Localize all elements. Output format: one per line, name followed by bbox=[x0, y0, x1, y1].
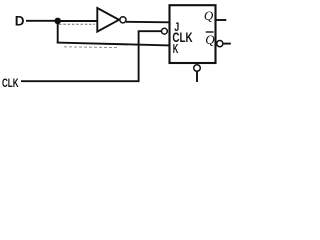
wire Q output bbox=[217, 19, 227, 21]
CLK input bubble bbox=[162, 28, 168, 34]
wire shadow artifact bbox=[59, 23, 95, 25]
Qbar output bubble bbox=[217, 41, 223, 47]
inverter U1 triangle bbox=[97, 8, 119, 32]
Qbar overbar bbox=[206, 31, 214, 33]
wire CLK bottom horizontal bbox=[21, 80, 140, 82]
wire inverter to J input bbox=[126, 21, 170, 24]
wire node vertical branch to K bbox=[57, 21, 59, 44]
clear input bubble (bottom) bbox=[194, 65, 201, 72]
svg-text:Q: Q bbox=[205, 32, 215, 47]
wire D to node bbox=[26, 20, 58, 22]
wire CLK vertical riser bbox=[138, 30, 140, 81]
inverter U1 output bubble bbox=[120, 17, 126, 23]
svg-text:Q: Q bbox=[204, 8, 214, 23]
svg-text:K: K bbox=[173, 44, 179, 57]
wire node to inverter bbox=[58, 20, 97, 22]
wire K branch horizontal bbox=[57, 43, 170, 46]
node junction dot bbox=[54, 18, 61, 25]
flip-flop U2 box bbox=[170, 5, 216, 63]
svg-text:D: D bbox=[15, 13, 25, 28]
svg-text:CLK: CLK bbox=[2, 78, 19, 91]
wire CLK horizontal to bubble bbox=[139, 30, 162, 32]
wire Qbar output bbox=[223, 43, 231, 45]
wire shadow artifact 2 bbox=[64, 46, 117, 49]
wire clear stem bbox=[196, 71, 198, 82]
